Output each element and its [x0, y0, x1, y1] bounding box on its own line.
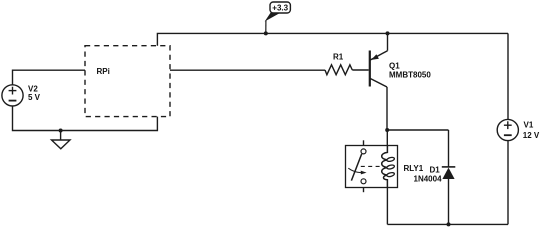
bottom rail wire [387, 223, 508, 225]
wire V2 top to RPi left [13, 70, 86, 85]
svg-text:5 V: 5 V [28, 93, 41, 102]
node +3.3 junction [264, 31, 268, 35]
resistor R1 [325, 65, 352, 75]
relay coil [382, 146, 395, 188]
relay bottom terminal stub [363, 188, 365, 193]
relay actuator arrow [348, 168, 366, 174]
diode D1 [442, 130, 456, 224]
label Q1 MMBT8050 [389, 62, 431, 80]
wire Q1 bottom to relay node [386, 87, 388, 130]
wire coil bottom to rail [386, 188, 388, 225]
relay switch blade [351, 154, 361, 181]
RPi block [85, 46, 170, 117]
wire node to diode branch [387, 129, 448, 131]
node emitter junction [385, 128, 389, 132]
node ground junction [59, 129, 63, 133]
wire R1 to Q1 base [352, 69, 368, 71]
voltage source V1 [497, 119, 518, 140]
wire V1 bottom [507, 141, 509, 225]
node rail junction [386, 31, 390, 35]
svg-text:12 V: 12 V [523, 131, 540, 140]
label V1 12 V [523, 120, 540, 140]
wire Q1 top to rail [387, 33, 389, 50]
relay coupling dashed line [361, 165, 382, 167]
relay contact bottom [361, 179, 366, 184]
wire node down into relay coil [386, 130, 388, 146]
svg-text:Q1: Q1 [389, 62, 400, 71]
wire RPi right pin to R1 [170, 69, 325, 71]
ground [52, 131, 71, 149]
transistor Q1 [370, 51, 388, 88]
voltage source V2 [2, 85, 23, 106]
label V2 5 V [28, 85, 41, 103]
svg-text:MMBT8050: MMBT8050 [389, 71, 431, 80]
relay RLY1 box [346, 146, 398, 188]
relay top terminal stub [363, 140, 365, 146]
label D1 1N4004 [414, 165, 443, 183]
svg-text:D1: D1 [430, 165, 441, 174]
relay contact top [361, 149, 366, 154]
svg-text:+3.3: +3.3 [272, 3, 288, 12]
wire V1 top [507, 33, 509, 119]
svg-text:RPi: RPi [97, 67, 110, 76]
net flag +3.3 [265, 2, 291, 33]
wire RPi top pin to +3.3 rail [157, 33, 508, 45]
wire V2 bottom to RPi bottom pin [13, 106, 158, 131]
svg-text:RLY1: RLY1 [404, 164, 424, 173]
svg-text:R1: R1 [333, 53, 344, 62]
svg-text:1N4004: 1N4004 [414, 175, 443, 184]
node diode bottom junction [447, 222, 451, 226]
svg-text:V1: V1 [524, 120, 534, 129]
